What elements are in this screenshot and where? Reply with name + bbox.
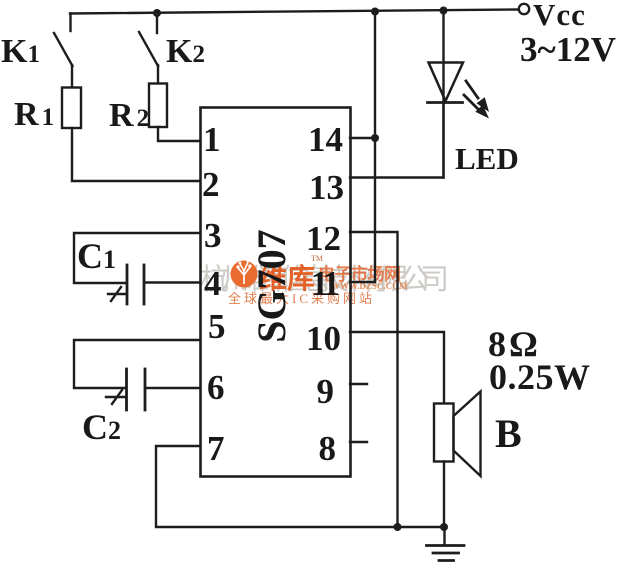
C2 polarity mark xyxy=(106,390,126,404)
svg-text:K2: K2 xyxy=(166,33,205,70)
svg-text:2: 2 xyxy=(202,165,220,204)
capacitor C1 xyxy=(127,265,144,304)
svg-text:0.25W: 0.25W xyxy=(489,357,591,397)
wire pin12 down to bottom rail xyxy=(350,232,398,527)
switch K2 xyxy=(139,13,158,66)
wire LED branch vertical xyxy=(442,10,444,178)
speaker B body xyxy=(434,404,454,462)
wire K2 to R2 xyxy=(157,65,159,84)
svg-text:Vcc: Vcc xyxy=(533,0,586,32)
wire vertical A from top rail to pin11 xyxy=(374,12,376,282)
svg-text:1: 1 xyxy=(203,120,221,159)
pin 9 stub xyxy=(350,383,367,385)
ground symbol xyxy=(427,527,465,561)
wire LED to pin13 xyxy=(350,102,444,178)
svg-text:14: 14 xyxy=(308,120,343,159)
junction dot LED top xyxy=(440,7,448,15)
svg-text:B: B xyxy=(495,411,522,456)
svg-text:12: 12 xyxy=(306,219,341,258)
svg-text:4: 4 xyxy=(204,264,222,303)
resistor R2 xyxy=(149,84,167,128)
wire pin7 to bottom rail xyxy=(156,446,444,527)
svg-text:11: 11 xyxy=(311,264,339,303)
wire C2 to pin6 xyxy=(145,387,200,389)
junction dot bottom rail ground xyxy=(440,523,448,531)
LED light arrow 2 xyxy=(464,95,489,119)
svg-text:13: 13 xyxy=(309,168,344,207)
svg-text:R2: R2 xyxy=(109,97,149,134)
svg-text:8: 8 xyxy=(319,429,337,468)
svg-text:6: 6 xyxy=(207,368,225,407)
wire C1 to pin4 xyxy=(144,281,200,283)
LED cathode bar xyxy=(428,101,463,104)
svg-text:3~12V: 3~12V xyxy=(520,30,616,69)
junction dot pin14 xyxy=(371,134,379,142)
wire R1 to pin2 xyxy=(72,128,200,181)
wire K1 to R1 xyxy=(71,65,73,88)
resistor R1 xyxy=(62,88,81,129)
LED D1 triangle xyxy=(429,63,464,102)
svg-text:SG707: SG707 xyxy=(249,229,294,342)
junction dot K2 top xyxy=(153,9,161,17)
wire speaker to ground rail xyxy=(443,462,445,528)
switch K1 xyxy=(54,14,73,67)
pin 8 stub xyxy=(350,441,367,443)
svg-text:10: 10 xyxy=(306,319,341,358)
svg-text:3: 3 xyxy=(204,216,222,255)
junction dot rail A top xyxy=(371,8,379,16)
C1 polarity mark xyxy=(108,287,127,301)
wire pin3 to C1 xyxy=(74,233,200,283)
svg-text:LED: LED xyxy=(455,141,519,176)
IC U1 SG707 box xyxy=(201,108,351,477)
junction dot bottom rail pin12 xyxy=(394,523,402,531)
svg-text:R1: R1 xyxy=(14,96,54,133)
svg-text:C2: C2 xyxy=(82,407,121,447)
speaker B horn xyxy=(454,392,481,477)
svg-text:K1: K1 xyxy=(1,33,40,70)
wire top rail xyxy=(70,10,518,14)
svg-text:C1: C1 xyxy=(77,236,116,276)
terminal Vcc circle xyxy=(519,4,529,14)
wire pin10 to speaker xyxy=(350,332,444,403)
watermark logo circle xyxy=(231,260,258,288)
svg-text:9: 9 xyxy=(317,372,335,411)
wire R2 to pin1 xyxy=(158,127,200,141)
capacitor C2 xyxy=(127,369,146,410)
wire pin14 to rail A xyxy=(350,137,375,139)
svg-text:7: 7 xyxy=(207,429,225,468)
wire pin5 to C2 xyxy=(74,340,200,388)
wire pin11 stub xyxy=(350,281,375,283)
svg-text:5: 5 xyxy=(208,307,226,346)
LED light arrow 1 xyxy=(466,81,489,112)
